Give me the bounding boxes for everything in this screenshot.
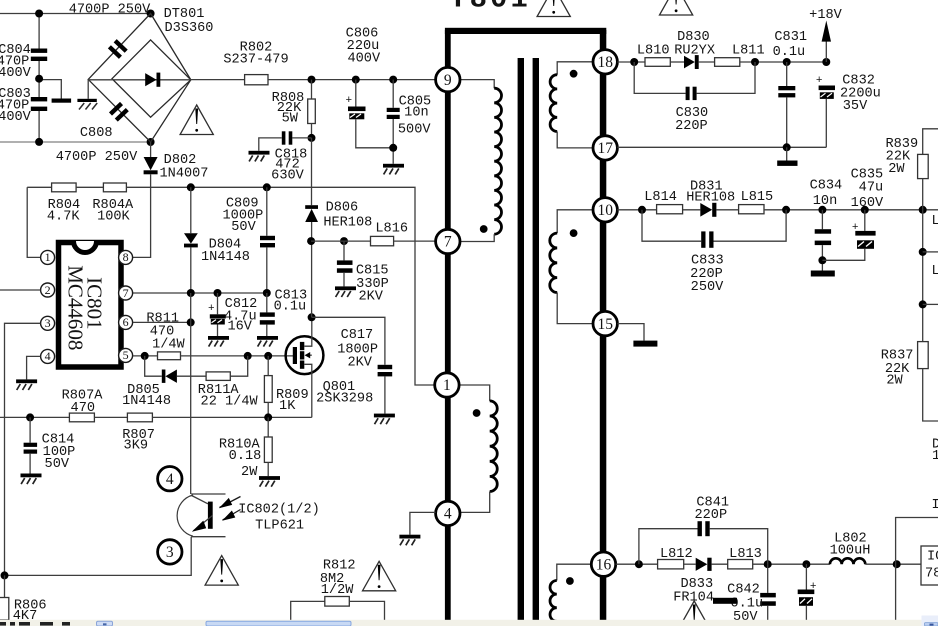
svg-text:0.18: 0.18 [229, 449, 262, 464]
resistor R837 [881, 342, 938, 421]
svg-text:L814: L814 [644, 190, 677, 205]
svg-text:2KV: 2KV [347, 356, 372, 371]
wire feedback riser x=190.7 to opto [190, 293, 192, 494]
wire node4 to chassis ground [410, 512, 436, 534]
svg-text:1N4007: 1N4007 [160, 167, 209, 182]
junction dots [26, 413, 34, 421]
svg-text:2SK3298: 2SK3298 [316, 392, 373, 407]
inductor L811 [715, 44, 765, 67]
wire R802 to node 9 [268, 79, 436, 81]
bridge cap upper-left [108, 39, 128, 59]
transformer T801 top bar [445, 28, 606, 34]
wire lower AC rail y=142 [0, 141, 151, 143]
junction dots [566, 577, 574, 585]
junction dots [187, 289, 195, 297]
capacitor C814 [24, 417, 76, 473]
svg-text:MC44608: MC44608 [64, 265, 88, 350]
node 9 [436, 67, 460, 91]
svg-text:47u: 47u [859, 181, 883, 196]
resistor R812 [291, 559, 385, 621]
svg-text:400V: 400V [0, 66, 32, 81]
svg-text:L811: L811 [732, 44, 765, 59]
svg-text:400V: 400V [0, 110, 32, 125]
svg-text:50V: 50V [231, 220, 256, 235]
wire pin8 riser from D802 [133, 187, 151, 257]
ground bar near C842 [713, 598, 737, 604]
ground pin4 [16, 379, 37, 390]
node 4 [436, 501, 460, 525]
junction dots [751, 58, 759, 66]
primary winding 1-4 [459, 385, 497, 512]
svg-text:50V: 50V [45, 457, 70, 472]
svg-text:3: 3 [45, 316, 51, 330]
capacitor C815 [337, 241, 389, 304]
capacitor C841 [639, 496, 768, 565]
resistor R806 [0, 575, 47, 624]
svg-text:IC802(1/2): IC802(1/2) [238, 503, 320, 518]
resistor R804A [92, 183, 134, 225]
wire between R804 R804A [76, 186, 103, 188]
svg-text:1N4148: 1N4148 [122, 394, 171, 409]
pin 1 [41, 250, 55, 264]
pin 6 [119, 315, 133, 329]
capacitor C842 [727, 564, 776, 625]
svg-text:2W: 2W [888, 162, 905, 177]
svg-text:16: 16 [596, 556, 612, 573]
diode D804 [184, 187, 250, 293]
capacitor C835 electrolytic [822, 168, 884, 261]
junction dots [473, 409, 481, 417]
wire pin6 [133, 321, 191, 323]
transformer core line 1 [518, 58, 524, 620]
sub-board box bottom right [896, 518, 938, 621]
svg-text:1N4148: 1N4148 [201, 250, 250, 265]
svg-text:1/2W: 1/2W [321, 583, 354, 598]
warning triangle top 2 [660, 0, 693, 15]
junction dots [187, 318, 195, 326]
wire node15 to ground [617, 324, 644, 341]
diode D802 [144, 142, 209, 187]
svg-text:HER108: HER108 [323, 216, 372, 231]
resistor R802 [223, 41, 288, 85]
svg-text:4700P 250V: 4700P 250V [69, 3, 151, 18]
warning triangle below bridge [180, 105, 213, 135]
transformer core line 2 [533, 58, 539, 620]
svg-text:4: 4 [166, 471, 174, 488]
svg-text:+: + [346, 95, 353, 107]
junction dots [307, 237, 315, 245]
svg-text:630V: 630V [271, 169, 304, 184]
svg-text:220P: 220P [694, 508, 727, 523]
node 10 [593, 198, 617, 222]
wire HV rail bridge to node 9 [191, 79, 245, 81]
svg-text:1/4W: 1/4W [152, 338, 185, 353]
svg-text:D806: D806 [326, 201, 359, 216]
capacitor C818 [259, 131, 312, 183]
junction dots [187, 183, 195, 191]
resistor R808 [272, 80, 316, 138]
wire feedback row y=187.3 [27, 186, 51, 188]
svg-text:TLP621: TLP621 [255, 519, 304, 534]
ground bridge left vertex [77, 79, 97, 109]
svg-text:250V: 250V [691, 280, 724, 295]
junction dots [638, 206, 646, 214]
svg-text:T801: T801 [449, 0, 531, 16]
junction dots [389, 144, 397, 152]
node 16 [591, 552, 615, 576]
svg-text:L816: L816 [375, 222, 408, 237]
inductor L802 [830, 532, 921, 565]
junction dots [919, 248, 927, 256]
capacitor C813 [260, 289, 307, 337]
opto-coupler IC802 LED [177, 494, 320, 537]
wire R804A to drain corner x=415 down to node 1 [126, 187, 434, 385]
capacitor C803 [0, 79, 47, 142]
svg-text:S237-479: S237-479 [223, 53, 288, 68]
+18V arrow [809, 8, 842, 62]
primary winding 9-7 [461, 80, 502, 242]
svg-text:5: 5 [123, 348, 129, 362]
junction dots [244, 352, 252, 360]
op-amp U1 IC801 body [59, 241, 122, 367]
wire pin7 rail y=293 [133, 292, 267, 294]
svg-text:+: + [208, 303, 215, 315]
resistor R811 [146, 312, 185, 360]
junction dots [264, 413, 272, 421]
svg-text:L812: L812 [660, 547, 693, 562]
transistor Q2 Q801 MOSFET [286, 317, 374, 417]
svg-text:6: 6 [123, 315, 129, 329]
svg-text:10n: 10n [404, 106, 428, 121]
svg-text:2: 2 [45, 283, 51, 297]
resistor R809 [264, 356, 308, 418]
ground 17 rail [777, 147, 797, 166]
node 17 [593, 136, 617, 160]
chassis bar near C803 [39, 80, 71, 103]
svg-text:1: 1 [443, 377, 451, 394]
secondary winding 18-17 [550, 62, 593, 148]
svg-text:1: 1 [45, 250, 51, 264]
junction dots [630, 58, 638, 66]
junction dots [635, 560, 643, 568]
capacitor electrolytic after L-filter [798, 564, 817, 620]
svg-text:5W: 5W [282, 112, 299, 127]
svg-text:RU2YX: RU2YX [674, 44, 715, 59]
svg-text:10: 10 [597, 202, 613, 219]
capacitor C805 [387, 80, 432, 164]
junction dots [893, 560, 901, 568]
ground C805 [383, 164, 404, 175]
warning triangle near R812 [363, 561, 396, 591]
capacitor C830 [634, 62, 755, 134]
svg-text:100K: 100K [97, 210, 130, 225]
ground C818 [249, 151, 270, 162]
capacitor C806 electrolytic [346, 27, 394, 148]
svg-text:9: 9 [444, 72, 452, 89]
junction dots [782, 206, 790, 214]
pin 2 [41, 283, 55, 297]
svg-text:15: 15 [597, 316, 613, 333]
resistor R839 [885, 129, 938, 210]
svg-text:0.1u: 0.1u [773, 45, 806, 60]
inductor L813 [728, 547, 762, 569]
svg-text:400V: 400V [347, 52, 380, 67]
svg-text:I: I [932, 498, 938, 513]
pin 4 [41, 349, 55, 363]
svg-text:3K9: 3K9 [124, 439, 148, 454]
node 15 [593, 311, 617, 335]
svg-text:+18V: +18V [809, 8, 842, 23]
wire source row y=417.4 [0, 416, 69, 418]
capacitor C809 [223, 187, 275, 293]
bridge diode [145, 73, 160, 87]
diode D831 [686, 180, 738, 217]
warning triangle D833 [678, 601, 711, 626]
inductor L816 [311, 222, 436, 246]
resistor R804 [47, 183, 80, 225]
svg-text:IC: IC [927, 550, 938, 565]
svg-text:10n: 10n [813, 194, 837, 209]
svg-text:17: 17 [597, 140, 613, 157]
wire R807 to Q801 source [152, 416, 311, 418]
capacitor C812 electrolytic [208, 293, 257, 336]
svg-text:4700P 250V: 4700P 250V [56, 150, 138, 165]
wire pin1 riser [27, 187, 40, 257]
svg-text:0.1u: 0.1u [274, 300, 307, 315]
node 18 [593, 50, 617, 74]
junction dots [308, 134, 316, 142]
wire node18 output row [617, 61, 645, 63]
diode D806 [305, 138, 372, 317]
svg-text:22 1/4W: 22 1/4W [201, 395, 259, 410]
svg-text:L813: L813 [729, 547, 762, 562]
svg-text:7: 7 [123, 286, 129, 300]
junction dots [783, 143, 791, 151]
svg-text:+: + [816, 75, 823, 87]
wire rail to right edge [764, 209, 938, 211]
svg-text:2W: 2W [241, 465, 258, 480]
svg-text:L810: L810 [637, 44, 670, 59]
resistor R810A [219, 417, 272, 480]
svg-text:470: 470 [71, 401, 95, 416]
svg-text:HER108: HER108 [686, 191, 735, 206]
svg-text:C831: C831 [774, 30, 807, 45]
svg-text:4: 4 [45, 349, 51, 363]
svg-text:4: 4 [444, 506, 452, 523]
transformer left limb bar [445, 30, 451, 620]
svg-text:D3S360: D3S360 [165, 21, 214, 36]
svg-text:C808: C808 [80, 126, 113, 141]
svg-text:2W: 2W [886, 374, 903, 389]
capacitor C834 [810, 179, 843, 271]
secondary winding 16 [550, 564, 592, 621]
resistor R811A [198, 356, 259, 410]
capacitor C833 [642, 210, 786, 295]
wire pin5 row [133, 355, 158, 357]
svg-text:1K: 1K [279, 399, 296, 414]
wire node17 row [617, 146, 826, 148]
pin 7 [119, 286, 133, 300]
wire top AC rail y=13.5 [0, 13, 151, 15]
inductor L814 [644, 190, 682, 214]
diode D830 [674, 30, 715, 69]
junction dots [480, 225, 488, 233]
svg-text:16V: 16V [227, 320, 252, 335]
wire pin4 to ground [27, 356, 41, 379]
junction dots AC side [35, 10, 43, 18]
svg-text:3: 3 [166, 544, 174, 561]
regulator IC box 78xx [921, 546, 938, 585]
svg-text:18: 18 [597, 54, 613, 71]
junction dots [308, 76, 316, 84]
svg-text:DT801: DT801 [164, 7, 205, 22]
wire R811 to gate [181, 355, 294, 357]
svg-text:35V: 35V [843, 99, 868, 114]
secondary winding 10-15 [550, 210, 593, 324]
svg-text:8: 8 [123, 250, 129, 264]
diode D833 [673, 558, 727, 606]
svg-text:1: 1 [932, 449, 938, 464]
svg-text:L: L [932, 214, 938, 229]
svg-text:C842: C842 [727, 583, 760, 598]
inductor L812 [658, 547, 693, 569]
svg-text:220P: 220P [675, 119, 708, 134]
resistor R807A [62, 389, 104, 422]
svg-text:L815: L815 [741, 190, 774, 205]
svg-text:78: 78 [925, 567, 938, 582]
svg-text:4.7K: 4.7K [47, 210, 80, 225]
wire pin2 to left edge [0, 289, 40, 291]
wire right edge column [922, 210, 924, 342]
svg-text:2KV: 2KV [358, 290, 383, 305]
capacitor C832 electrolytic [816, 74, 881, 148]
bridge center line [88, 79, 191, 81]
scrollbar strip bottom [0, 616, 938, 626]
bridge rectifier inner diamond [112, 40, 191, 117]
svg-text:L: L [932, 264, 938, 279]
node 7 [436, 229, 460, 253]
svg-text:C817: C817 [341, 328, 374, 343]
capacitor C804 [0, 14, 47, 82]
wire between [94, 416, 127, 418]
svg-text:C834: C834 [810, 179, 843, 194]
svg-text:500V: 500V [398, 123, 431, 138]
warning triangle near opto [205, 556, 238, 586]
junction dots [818, 256, 826, 264]
diode D805 [122, 356, 206, 409]
wire pin3 to left edge riser [5, 323, 41, 575]
inductor L815 [739, 190, 774, 214]
wire opto cathode down and across to left [5, 537, 192, 576]
capacitor C817 [312, 317, 393, 413]
junction dots [1, 571, 9, 579]
capacitor C831 [773, 30, 807, 147]
transformer right limb bar [600, 30, 607, 620]
pin 5 [119, 348, 133, 362]
node 4 opto label circle [158, 467, 182, 491]
wire node10 output rail [617, 209, 656, 211]
pin 8 [119, 250, 133, 264]
warning triangle top 1 [537, 0, 570, 17]
svg-text:100uH: 100uH [830, 544, 871, 559]
bridge cap lower-left [109, 102, 129, 122]
junction dots [570, 229, 578, 237]
svg-text:7: 7 [444, 234, 452, 251]
node 1 [435, 373, 459, 397]
resistor R807 [122, 413, 155, 453]
wire node16 output row [616, 563, 658, 565]
junction dots [764, 560, 772, 568]
svg-text:160V: 160V [851, 196, 884, 211]
junction dots [308, 313, 316, 321]
junction dots [141, 352, 149, 360]
pin 3 [41, 316, 55, 330]
node 3 opto label circle [158, 540, 182, 564]
bridge rectifier DT801 outer kite [88, 14, 191, 143]
junction dots [570, 70, 578, 78]
inductor L810 [637, 44, 670, 67]
